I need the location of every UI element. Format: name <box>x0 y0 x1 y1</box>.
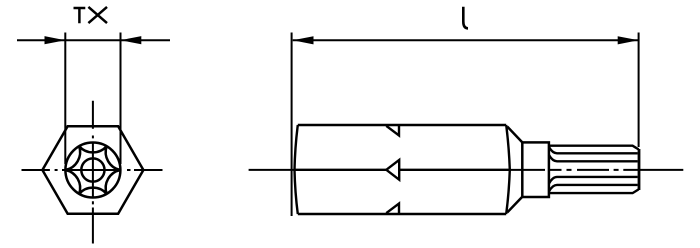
tip spline line 2 with root flare <box>549 155 638 161</box>
torx inner circle <box>81 158 104 181</box>
hex shank middle edge (right of mark) <box>399 169 510 171</box>
taper top line <box>507 127 522 143</box>
flat runout mark on top edge <box>386 126 399 136</box>
TX arrow right (pointing left) <box>121 36 142 44</box>
l extension line left <box>291 33 293 217</box>
flat runout mark on bottom edge <box>386 204 399 214</box>
hex shank bottom edge <box>298 213 506 216</box>
l arrow right (pointing right) <box>618 36 639 44</box>
hex shank top edge <box>298 124 506 127</box>
collar rectangle <box>522 142 549 197</box>
l arrow left (pointing left) <box>293 36 314 44</box>
torx outer circle <box>65 143 120 198</box>
hexagon outline (1/4 inch hex front view) <box>42 126 143 214</box>
hex shank middle edge (left of mark) <box>295 169 386 171</box>
l label (lowercase l with tail) <box>463 7 468 29</box>
flat runout mark on middle edge (open triangle) <box>386 160 399 180</box>
taper bottom line <box>507 197 522 213</box>
TX arrow left (pointing right) <box>45 36 66 44</box>
tip bottom outline with end chamfer <box>549 189 639 193</box>
tip top outline with end chamfer <box>549 146 639 150</box>
TX extension line right <box>120 33 122 165</box>
TX label <box>74 7 108 23</box>
l dimension line <box>293 39 639 41</box>
tip spline line 1 with root flare <box>549 147 638 153</box>
shank right end chamfer arcs <box>506 125 510 214</box>
tip spline line 3 with root flare <box>549 177 638 184</box>
front view: vertical centerline <box>92 101 94 244</box>
l extension line right <box>638 33 640 148</box>
tip spline line 4 with root flare <box>549 185 638 192</box>
front view: horizontal centerline <box>22 169 163 171</box>
TX dimension line <box>17 39 170 41</box>
side view: horizontal centerline left stub <box>249 169 296 171</box>
tip end face <box>638 149 641 190</box>
side view: horizontal centerline right run <box>510 169 683 171</box>
TX extension line left <box>64 33 66 165</box>
shank left end chamfer arcs <box>295 125 298 214</box>
torx profile (six lobular arcs) <box>65 146 120 194</box>
